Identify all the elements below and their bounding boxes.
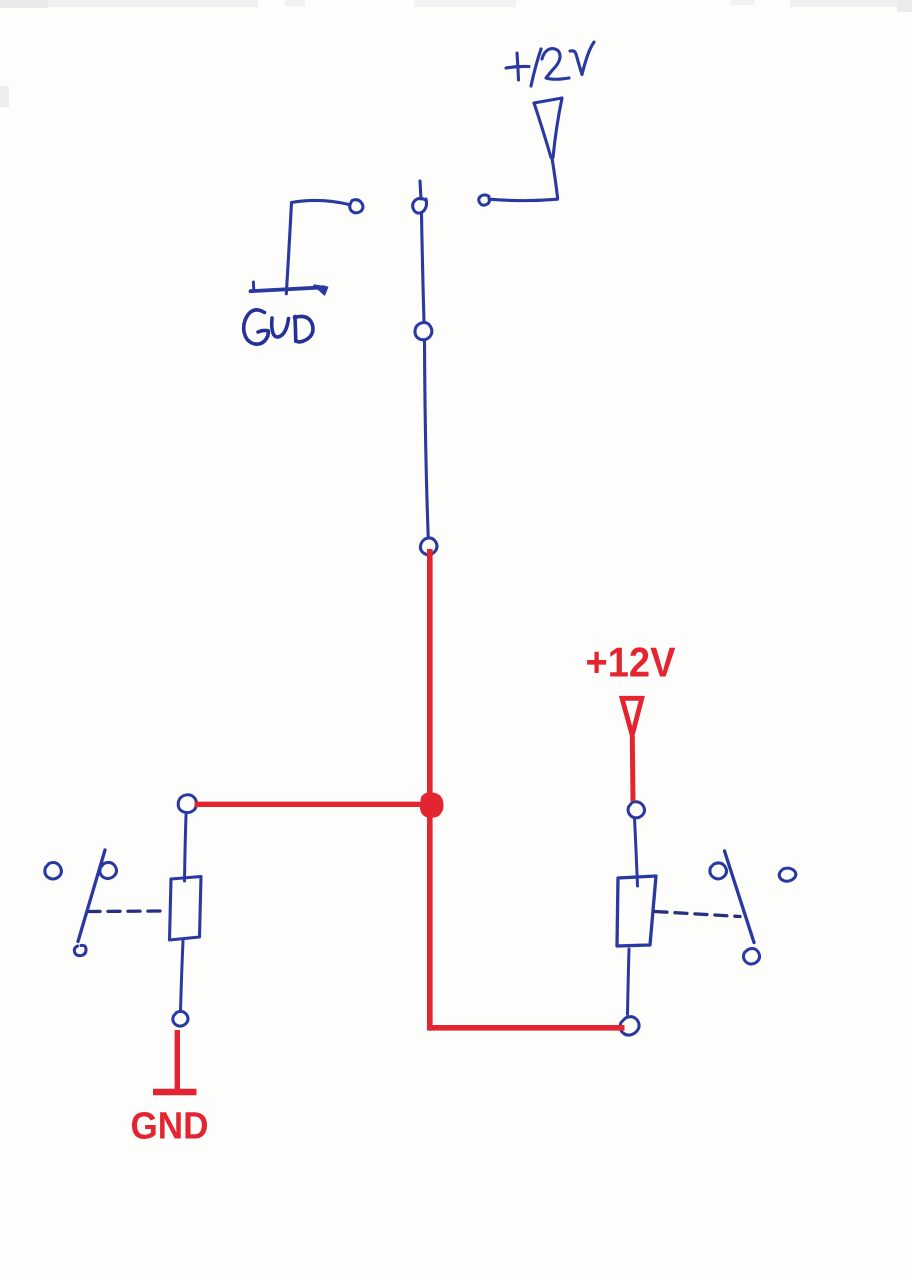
dashed actuator link (left relay) — [88, 909, 164, 913]
red wire: lower horizontal to right coil — [429, 1025, 625, 1031]
switch arm (left) — [78, 850, 105, 942]
switch arm end loop (left) — [74, 945, 86, 955]
wire: left coil bottom lead — [181, 941, 184, 1011]
terminal circle (top-left GND branch) — [350, 200, 363, 213]
red bus: main vertical wire — [427, 549, 433, 1031]
terminal: blue circle joining red bus (center) — [420, 538, 437, 555]
power +12V symbol (blue funnel triangle) — [534, 98, 562, 197]
contact terminal circle (far right) — [779, 868, 796, 881]
wire: center vertical stub (top) — [420, 181, 421, 199]
wire: center vertical (upper span) — [422, 214, 425, 322]
wire: top-left vertical to ground bar — [286, 203, 291, 294]
switch pivot circle (right) — [710, 863, 727, 879]
junction dot (red blob) — [420, 792, 444, 818]
svg-text:GND: GND — [131, 1106, 209, 1148]
label +12V (blue handwritten, top supply) — [506, 42, 594, 86]
switch pivot circle (left) — [100, 862, 117, 878]
switch arm (right) — [725, 851, 755, 943]
wire: center vertical (lower span) — [425, 341, 429, 536]
relay coil K1 (left rectangle) — [170, 877, 202, 941]
contact terminal circle (far left) — [45, 863, 62, 880]
ground symbol (blue bar with end ticks) — [251, 282, 328, 295]
terminal: right relay coil bottom circle — [620, 1017, 639, 1035]
red wire: +12V stem to right coil terminal — [630, 736, 636, 801]
power +12V symbol (red triangle, right) — [622, 698, 642, 735]
relay coil K2 (right rectangle) — [617, 876, 656, 946]
wire: left coil top lead — [185, 815, 187, 881]
switch arm end circle (right) — [743, 949, 759, 965]
red wire: left coil bottom to ground — [175, 1030, 180, 1089]
wire: top-left horizontal to GND — [292, 200, 350, 204]
terminal: left relay coil top circle — [178, 795, 196, 813]
wire: right coil top lead — [635, 819, 638, 887]
dashed actuator link (right relay) — [655, 912, 740, 917]
terminal: right relay coil top circle — [628, 802, 644, 818]
terminal circle at +12V feed — [479, 195, 490, 205]
node: lower loop terminal on center wire — [415, 323, 432, 340]
ground symbol (red bar) — [153, 1089, 197, 1095]
svg-text:+12V: +12V — [586, 639, 676, 686]
node: upper loop terminal on center wire — [413, 198, 427, 213]
label GND (blue handwritten) — [244, 310, 313, 344]
terminal: left relay coil bottom circle — [173, 1011, 188, 1026]
red wire: upper horizontal to left coil — [195, 802, 429, 807]
wire from +12V symbol to left terminal — [491, 197, 558, 201]
wire: right coil bottom lead — [628, 949, 630, 1015]
